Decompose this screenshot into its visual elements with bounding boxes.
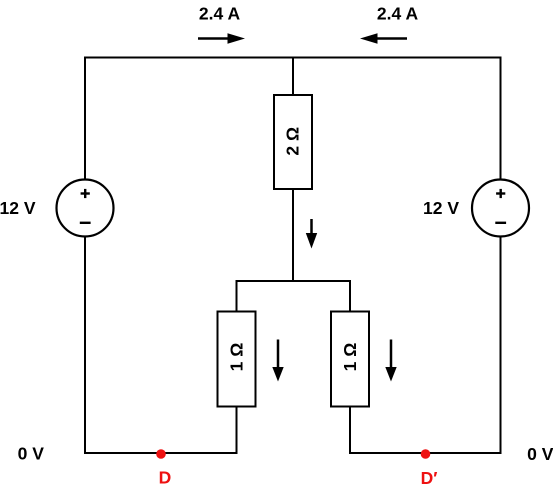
wire left rail lower [84,237,86,455]
voltage source V1 (12 V, left) [57,180,114,237]
svg-text:2.4 A: 2.4 A [199,4,241,24]
svg-text:2.4 A: 2.4 A [377,4,419,24]
wire bottom left segment [84,452,238,454]
svg-text:0 V: 0 V [527,444,553,464]
svg-text:D: D [159,468,172,488]
svg-text:2 Ω: 2 Ω [283,127,303,156]
wire top horizontal [84,57,502,59]
wire right rail lower [500,237,502,455]
resistor R2 (1 Ohm, left) [218,312,256,407]
svg-text:1 Ω: 1 Ω [226,343,246,372]
wire middle branch bottom [292,189,294,282]
wire right split stub [349,280,351,312]
voltage source V2 (12 V, right) [472,180,529,237]
wire right rail upper [500,57,502,181]
svg-text:12 V: 12 V [423,198,459,218]
svg-text:0 V: 0 V [18,444,45,464]
arrow current down (middle branch) [306,219,317,249]
arrow current down (right 1 Ohm) [385,340,396,382]
wire left rail upper [84,57,86,181]
node D [156,449,166,459]
svg-text:12 V: 12 V [0,198,36,218]
arrow current right-pointing (left branch) [198,33,245,44]
wire split horizontal [236,280,352,282]
wire right 1 Ohm to bottom [349,407,351,455]
node D' [421,449,431,459]
wire bottom right segment [349,452,502,454]
resistor R1 (2 Ohm) [274,95,312,189]
arrow current left-pointing (right branch) [360,33,407,44]
arrow current down (left 1 Ohm) [272,340,283,382]
svg-text:D′: D′ [421,468,438,488]
wire left split stub [236,280,238,312]
svg-text:1 Ω: 1 Ω [340,343,360,372]
wire middle branch top [292,57,294,97]
resistor R3 (1 Ohm, right) [331,312,369,407]
wire left 1 Ohm to bottom [236,407,238,455]
